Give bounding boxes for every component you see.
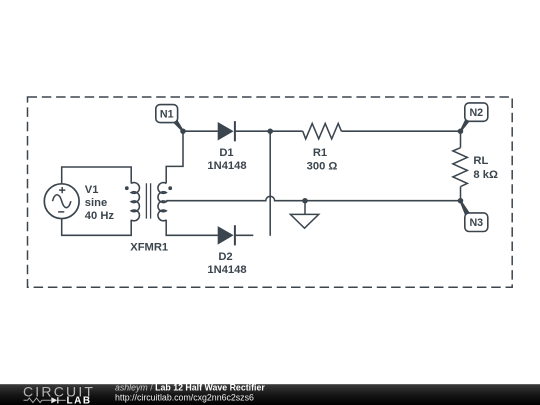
svg-text:N3: N3: [469, 217, 483, 229]
svg-text:8 kΩ: 8 kΩ: [473, 169, 498, 181]
svg-text:RL: RL: [473, 155, 488, 167]
svg-text:D1: D1: [219, 147, 233, 159]
svg-text:1N4148: 1N4148: [207, 264, 246, 276]
svg-text:R1: R1: [313, 147, 327, 159]
svg-text:D2: D2: [218, 251, 232, 263]
svg-text:ashleym / Lab 12 Half Wave Rec: ashleym / Lab 12 Half Wave Rectifier: [115, 383, 265, 393]
svg-text:V1: V1: [85, 184, 99, 196]
svg-text:LAB: LAB: [67, 396, 92, 405]
svg-text:300 Ω: 300 Ω: [307, 160, 338, 172]
svg-text:XFMR1: XFMR1: [130, 242, 168, 254]
svg-text:N2: N2: [469, 107, 483, 119]
svg-text:http://circuitlab.com/cxg2nn6c: http://circuitlab.com/cxg2nn6c2szs6: [115, 393, 254, 403]
svg-text:1N4148: 1N4148: [207, 160, 246, 172]
svg-text:N1: N1: [160, 109, 174, 121]
svg-text:sine: sine: [85, 197, 107, 209]
svg-text:40 Hz: 40 Hz: [85, 210, 115, 222]
